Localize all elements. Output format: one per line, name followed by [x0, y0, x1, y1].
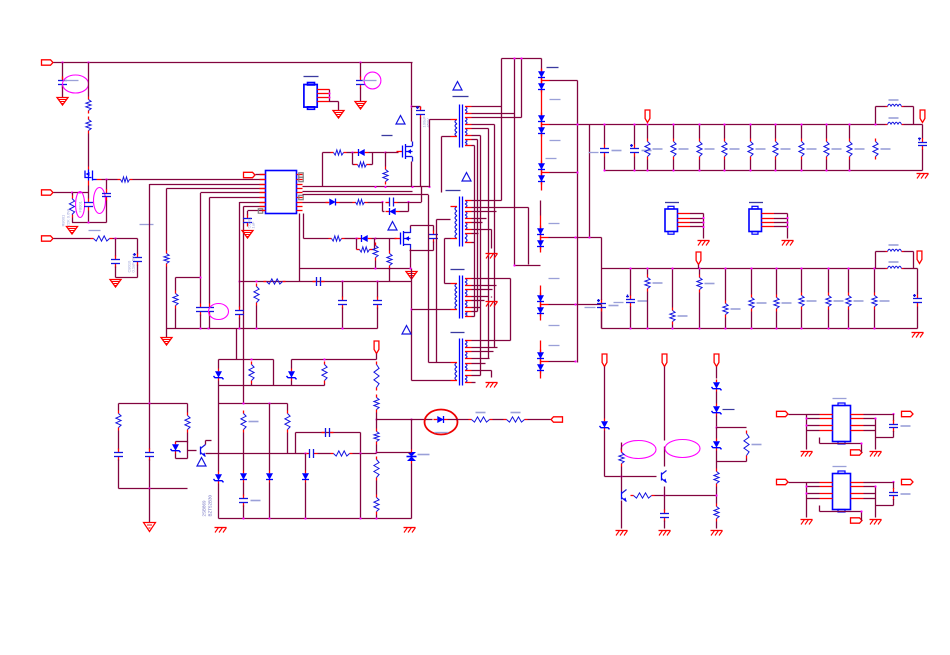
resistor R8101 — [671, 139, 689, 160]
node junction — [323, 358, 325, 360]
node junction — [574, 360, 576, 362]
resistor R21 — [631, 493, 655, 498]
wire — [420, 118, 422, 188]
wire T2 left bot — [445, 238, 451, 240]
wire — [218, 360, 220, 369]
wire — [472, 285, 497, 287]
wire — [303, 194, 429, 196]
node junction — [376, 280, 378, 282]
wire — [716, 487, 718, 504]
node junction — [629, 327, 631, 329]
resistor R8105 — [773, 139, 791, 160]
wire — [717, 461, 747, 463]
wire — [187, 404, 189, 413]
capacitor C8102 — [630, 144, 652, 157]
resistor R30 — [374, 395, 379, 413]
resistor R6 — [164, 251, 169, 267]
wire — [875, 252, 877, 269]
wire — [62, 86, 64, 98]
zener diode ZD9 — [214, 472, 224, 484]
pin right — [297, 210, 303, 212]
resistor R20 — [619, 450, 624, 467]
wire — [137, 265, 139, 278]
capacitor C9 — [338, 297, 347, 309]
wire — [528, 419, 551, 421]
node junction — [61, 61, 63, 63]
connector pin P3 — [42, 236, 54, 241]
connector pin PROT2 — [662, 354, 667, 367]
zener diode ZD5 (TVS) — [407, 450, 430, 464]
wire — [368, 202, 383, 204]
wire — [634, 125, 636, 145]
fuse F8001 — [69, 196, 74, 218]
pin left — [260, 202, 266, 204]
wire — [716, 522, 718, 529]
wire — [621, 467, 623, 492]
wire — [410, 226, 412, 229]
capacitor C3 — [133, 253, 142, 266]
wire — [410, 250, 434, 252]
wire — [672, 123, 674, 171]
wire — [353, 453, 377, 455]
wire T1 left bot — [442, 136, 451, 138]
wire bottom rail3 — [219, 518, 412, 520]
label dash — [89, 230, 101, 232]
wire — [472, 106, 502, 108]
wire — [239, 202, 241, 282]
wire — [303, 186, 422, 188]
pin left — [260, 174, 266, 176]
wire — [604, 125, 606, 145]
wire — [218, 438, 220, 472]
pin left — [260, 188, 266, 190]
wire loop top — [219, 359, 274, 361]
wire — [922, 150, 924, 171]
capacitor C24 — [322, 428, 334, 437]
wire — [239, 282, 241, 308]
node junction — [428, 186, 430, 188]
wire top rail2 — [219, 403, 288, 405]
wire — [370, 164, 373, 166]
label dash — [549, 278, 560, 280]
wire — [188, 450, 197, 452]
wire — [218, 404, 220, 438]
wire — [472, 370, 492, 372]
node junction — [374, 186, 376, 188]
node junction — [874, 123, 876, 125]
wire — [441, 137, 443, 193]
wire — [789, 482, 807, 484]
label dash — [435, 432, 449, 434]
wire — [820, 438, 863, 451]
connector pin — [777, 479, 789, 484]
wire — [716, 416, 718, 428]
wire — [433, 226, 435, 232]
wire — [913, 107, 915, 125]
node junction — [388, 267, 390, 269]
wire — [411, 269, 413, 282]
wire — [322, 153, 324, 188]
wire — [398, 202, 422, 204]
node junction — [409, 267, 411, 269]
node junction — [574, 236, 576, 238]
node junction — [199, 276, 201, 278]
wire — [389, 239, 391, 251]
capacitor CX1 — [84, 199, 93, 211]
wire — [209, 198, 211, 304]
transistor K1 (line switch) — [85, 167, 102, 193]
svg-text:22K 0.6W: 22K 0.6W — [66, 209, 71, 227]
connector pin STB — [551, 417, 563, 422]
wire — [133, 179, 266, 181]
wire — [72, 218, 74, 223]
wire — [664, 367, 666, 441]
IC tab — [838, 471, 845, 512]
capacitor CX2 — [102, 189, 111, 201]
resistor R8108 — [847, 139, 865, 160]
node junction — [513, 264, 515, 266]
wire — [373, 249, 375, 251]
power ground — [486, 254, 498, 259]
wire — [493, 419, 504, 421]
wire — [716, 451, 718, 462]
node junction — [513, 57, 515, 59]
label T8001 — [453, 96, 469, 98]
capacitor C13 — [356, 77, 365, 89]
node junction — [87, 61, 89, 63]
node junction — [268, 402, 270, 404]
power ground — [486, 302, 498, 307]
node junction — [410, 308, 412, 310]
wire — [664, 521, 666, 529]
wire — [749, 123, 751, 171]
wire — [848, 123, 850, 171]
wire — [472, 113, 515, 115]
inductor L8201 — [876, 245, 914, 252]
marker ellipse — [94, 188, 106, 214]
wire — [166, 189, 168, 251]
node junction — [588, 236, 590, 238]
node junction — [381, 201, 383, 203]
wire — [303, 214, 305, 239]
resistor R24 — [714, 504, 719, 522]
label CN — [749, 202, 763, 204]
label inside ellipse — [78, 200, 83, 212]
resistor R25 — [469, 413, 493, 423]
wire — [917, 269, 919, 295]
wire — [717, 427, 747, 429]
label D8001 — [547, 67, 559, 69]
wire bus — [589, 125, 591, 238]
resistor R31 — [374, 429, 379, 445]
wire — [472, 218, 487, 220]
label dash — [549, 345, 560, 347]
left ground — [801, 452, 813, 457]
resistor R8199 — [873, 139, 891, 160]
capacitor C23 — [239, 495, 261, 507]
diode D8012 — [537, 362, 544, 374]
wire — [893, 414, 895, 421]
wire — [376, 515, 378, 519]
wire — [412, 106, 421, 108]
power ground — [616, 531, 628, 536]
wire top link — [502, 58, 542, 60]
label T8002 — [446, 190, 461, 192]
wire — [428, 195, 430, 363]
inductor L8102 — [876, 118, 914, 125]
wire — [671, 267, 673, 329]
wire — [800, 267, 802, 329]
chassis ground — [67, 227, 78, 235]
wire — [369, 152, 386, 154]
wire — [472, 222, 483, 224]
chassis ground — [110, 280, 121, 288]
pin left — [260, 179, 266, 181]
wire out — [541, 237, 602, 239]
wire — [376, 238, 397, 240]
capacitor C21 — [114, 449, 123, 461]
resistor R11 — [353, 199, 368, 204]
zener diode ZD7 — [287, 369, 297, 381]
wire — [106, 201, 108, 223]
marker circle — [364, 72, 381, 89]
wire — [324, 384, 326, 386]
node junction — [148, 402, 150, 404]
connector pin — [902, 479, 914, 484]
power ground — [404, 528, 416, 533]
resistor R8103 — [722, 139, 740, 160]
wire — [724, 267, 726, 329]
capacitor C — [889, 420, 911, 432]
wire — [377, 308, 379, 329]
resistor R33 — [374, 495, 379, 515]
wire — [345, 238, 359, 240]
connector pin P2 (AC neutral) — [42, 190, 54, 195]
connector pin P5 — [244, 172, 256, 177]
wire — [820, 506, 863, 519]
wire — [472, 117, 522, 119]
node junction — [375, 451, 377, 453]
IC tab — [838, 403, 845, 444]
diode D7 — [302, 471, 309, 483]
wire — [176, 277, 201, 279]
marker ellipse — [665, 440, 700, 458]
wire — [303, 191, 413, 193]
wire — [876, 481, 895, 483]
wire — [875, 107, 877, 125]
connector pin — [851, 518, 863, 523]
wire — [411, 282, 413, 381]
resistor R10 — [387, 251, 392, 269]
node junction — [351, 151, 353, 153]
label dash — [614, 302, 624, 304]
wire — [922, 125, 924, 139]
resistor R32 — [374, 457, 379, 481]
label dash — [363, 80, 377, 82]
label dash — [585, 307, 596, 309]
node junction — [663, 494, 665, 496]
IC U861 — [833, 406, 851, 442]
zener diode ZD6 — [214, 369, 224, 381]
wire — [491, 230, 493, 249]
wire — [299, 214, 301, 282]
label — [66, 209, 71, 227]
wire — [893, 482, 895, 489]
power ground — [711, 531, 723, 536]
wire — [166, 267, 168, 329]
wire rail — [240, 281, 412, 283]
wire — [62, 63, 64, 80]
wire pin7 run — [240, 202, 266, 204]
diode stack spine — [540, 286, 542, 321]
node junction — [71, 191, 73, 193]
wire — [54, 238, 91, 240]
transistor Q8002 MOSFET — [397, 142, 413, 162]
wire — [716, 392, 718, 404]
IC pins — [807, 415, 876, 431]
wire — [187, 442, 189, 459]
resistor R1 — [88, 63, 90, 97]
label fuse — [61, 214, 66, 227]
transistor Q8003 MOSFET — [395, 229, 411, 249]
zener diode ZD4 — [712, 439, 722, 451]
wire — [472, 375, 481, 377]
resistor R8104 — [748, 139, 766, 160]
wire bus — [480, 136, 482, 376]
wire — [400, 211, 409, 213]
diode D8201 (highlighted) — [434, 416, 448, 423]
wire mid rail — [212, 453, 296, 455]
wire T1 left top — [430, 119, 451, 121]
transistor Q3 — [662, 471, 667, 483]
label Q8002 — [382, 135, 393, 137]
wire — [206, 453, 212, 455]
chassis ground — [161, 338, 172, 346]
label U — [833, 466, 847, 468]
resistor R7 — [173, 291, 178, 309]
wire — [219, 385, 325, 387]
node junction — [355, 237, 357, 239]
resistor R13 — [355, 162, 370, 167]
node junction — [411, 186, 413, 188]
connector pin — [777, 411, 789, 416]
wire pin6 run — [210, 197, 266, 199]
zener diode ZD8 — [171, 442, 181, 454]
warning triangle — [396, 116, 405, 125]
power ground — [486, 383, 498, 388]
wire — [347, 152, 356, 154]
wire +V rail 2 — [602, 268, 876, 270]
resistor R22 — [744, 431, 762, 459]
svg-text:1uF: 1uF — [251, 221, 256, 228]
wire — [472, 278, 511, 280]
wire pin8 run — [244, 206, 266, 208]
wire pin4 run — [167, 188, 266, 190]
wire — [716, 428, 718, 439]
resistor R8106 — [799, 139, 817, 160]
transformer T8004 — [451, 339, 472, 386]
node junction — [384, 186, 386, 188]
relay pin — [317, 89, 329, 91]
red highlight ellipse — [425, 410, 458, 435]
wire — [372, 238, 376, 240]
warning triangle — [388, 222, 397, 231]
wire — [914, 124, 923, 126]
diode D1 — [326, 199, 340, 206]
wire — [376, 481, 378, 495]
wire — [376, 413, 378, 429]
power ground — [912, 333, 924, 338]
inductor L8202 — [876, 262, 914, 269]
pin right — [297, 188, 303, 190]
wire — [113, 238, 138, 240]
diode stack spine — [541, 146, 543, 191]
chassis ground — [333, 111, 344, 119]
wire — [200, 315, 202, 329]
capacitor C2 — [111, 256, 120, 268]
capacitor C8299 — [913, 294, 922, 307]
wire — [218, 484, 220, 519]
node junction — [576, 123, 578, 125]
wire — [601, 305, 603, 329]
warning triangle — [462, 173, 471, 182]
wire — [472, 300, 485, 302]
label T8003 — [451, 269, 465, 271]
wire — [273, 360, 275, 386]
wire out — [542, 124, 590, 126]
node junction — [207, 327, 209, 329]
wire vertical bus — [149, 184, 151, 404]
wire — [376, 354, 378, 360]
label RY1 — [304, 76, 319, 78]
resistor R8201 — [670, 308, 688, 325]
wire — [116, 277, 138, 279]
wire — [375, 261, 377, 269]
wire — [664, 447, 666, 467]
wire — [374, 239, 376, 250]
wire — [436, 220, 438, 363]
node junction — [620, 475, 622, 477]
pin left — [260, 197, 266, 199]
node junction — [407, 201, 409, 203]
wire — [472, 347, 498, 349]
diode D8003 — [538, 113, 545, 125]
wire — [491, 371, 493, 378]
svg-text:BZT52B30: BZT52B30 — [208, 494, 213, 516]
connector pins — [678, 214, 705, 239]
wire — [411, 420, 413, 450]
label cap2 — [426, 118, 431, 128]
wire — [118, 404, 120, 411]
wire — [913, 252, 915, 269]
wire — [472, 296, 489, 298]
wire — [149, 460, 151, 489]
wire — [176, 441, 188, 443]
wire — [291, 381, 293, 386]
wire bus — [521, 59, 523, 118]
node junction — [384, 151, 386, 153]
wire — [247, 211, 249, 216]
wire — [251, 384, 253, 386]
diode D8007 — [537, 226, 544, 238]
diode D2 — [386, 208, 400, 215]
wire — [472, 128, 489, 130]
wire — [149, 489, 151, 523]
connector pin — [902, 411, 914, 416]
capacitor C — [889, 488, 911, 500]
diode D8001 — [538, 69, 545, 81]
resistor R14 — [383, 167, 388, 185]
